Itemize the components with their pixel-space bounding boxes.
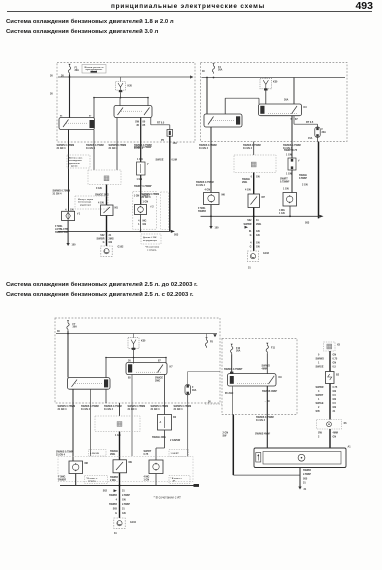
svg-text:SW/RT: SW/RT (142, 195, 150, 198)
svg-text:GN: GN (333, 398, 337, 401)
relay K1 (dashed box with coil) (116, 82, 126, 93)
wire K2 pin87 down to connector box (93, 130, 95, 171)
exit label wire 6 (174, 405, 192, 411)
bus 30 (supply rail) (56, 333, 217, 335)
wire node row (106, 357, 166, 359)
svg-text:31: 31 (303, 482, 306, 485)
fan motor M5 (298, 454, 305, 461)
wire ML2 to ground point (thick) (119, 473, 121, 518)
wire F9h down (187, 395, 189, 403)
svg-text:85 2GN: 85 2GN (225, 392, 234, 395)
fuse holder F9h (pill) (185, 385, 190, 395)
right leg to fan unit (329, 429, 331, 448)
svg-text:S05: S05 (303, 478, 308, 481)
svg-text:G102: G102 (118, 246, 125, 249)
connector X2 (dashed box with plug) (88, 170, 121, 185)
svg-text:Мотор + серия: Мотор + серия (78, 199, 94, 201)
wire branch horizontal (294, 123, 318, 125)
wire R1 to motor M3 (291, 170, 293, 193)
svg-text:G104: G104 (130, 521, 137, 524)
svg-text:SW/GE: SW/GE (316, 366, 324, 369)
pin terminal blob left (230, 372, 233, 374)
ground connector (dashed) (317, 420, 342, 430)
svg-text:1: 1 (318, 362, 320, 365)
svg-text:Вентил. сист.: Вентил. сист. (69, 158, 83, 160)
ground bus 31 (60, 485, 197, 487)
svg-text:M8: M8 (85, 462, 89, 465)
svg-text:K30: K30 (141, 340, 146, 343)
svg-text:SW/BR: SW/BR (198, 210, 206, 213)
wire to relay K3 contact (147, 98, 149, 106)
svg-text:SW/WS 4MM²: SW/WS 4MM² (262, 389, 277, 393)
fuse F8 (205, 337, 207, 347)
wire K8 pin85 down (left leg) (232, 386, 234, 415)
exit label wire 3 (104, 405, 122, 411)
svg-text:30A: 30A (218, 69, 223, 72)
control valve V1 (326, 372, 335, 384)
svg-text:2MG: 2MG (242, 181, 247, 184)
svg-text:SW/BR: SW/BR (244, 223, 252, 226)
exit label wire K5-87 (283, 144, 301, 150)
header rule (7, 11, 372, 13)
relay K2 (fan relay) (59, 118, 95, 130)
exit label wire 5 (151, 405, 169, 411)
left leg (thick) down (232, 415, 234, 476)
junction C1 wire x bus (210, 215, 212, 217)
wire K3 contact to sensor connector (thick) (140, 118, 142, 163)
svg-text:0.75MM²: 0.75MM² (280, 180, 290, 184)
svg-text:2 GN: 2 GN (302, 184, 308, 187)
dashed label box 2 (169, 450, 189, 457)
svg-text:4 GN SW: 4 GN SW (90, 452, 99, 455)
ground bus wire 31 (58, 230, 170, 232)
jog line (156, 447, 165, 449)
svg-text:30A: 30A (73, 326, 78, 329)
sensor enclosure (dashed) (133, 192, 157, 230)
wire CL1 to ground bus (75, 474, 77, 486)
svg-text:радиатора: радиатора (80, 204, 92, 206)
wire coil to relay K5 (265, 91, 267, 105)
fan unit inner frame (263, 452, 341, 465)
svg-text:предохран.: предохран. (86, 69, 104, 71)
svg-text:31: 31 (122, 508, 125, 511)
svg-text:← 30: ← 30 (205, 401, 211, 404)
labels above C1 (196, 181, 214, 187)
ground terminal 100 (209, 226, 212, 229)
svg-text:GN: GN (143, 223, 147, 226)
svg-text:2MG: 2MG (110, 453, 115, 456)
svg-text:F8: F8 (210, 341, 213, 344)
svg-text:1: 1 (318, 398, 320, 401)
svg-text:RT 0.5: RT 0.5 (157, 122, 165, 125)
svg-text:4MM²: 4MM² (262, 367, 268, 371)
wire X4 to motor ML2 (thick) (119, 432, 121, 460)
valve Y1 (diamond symbol in box) (62, 211, 75, 220)
connector X2 pins (104, 176, 109, 181)
svg-text:GN: GN (333, 362, 337, 365)
svg-text:RT 0.5: RT 0.5 (306, 121, 314, 124)
svg-text:31: 31 (122, 490, 125, 493)
valve C1 (circle with arrows) (204, 193, 220, 205)
svg-text:1 GN: 1 GN (286, 154, 292, 157)
svg-text:30A: 30A (75, 69, 80, 72)
svg-text:0.75: 0.75 (333, 386, 338, 389)
bus end blob (194, 484, 200, 487)
fuse-relay box (dashed enclosure) (55, 318, 220, 403)
junction right end node row (165, 357, 167, 359)
wire Y1 to ground (67, 221, 69, 244)
svg-text:30A: 30A (284, 99, 289, 102)
svg-text:0: 0 (318, 354, 320, 357)
connector X3 (dashed box) (234, 155, 276, 173)
labels above CL1 (56, 451, 74, 457)
connector X4 (dashed box) (95, 416, 140, 432)
wire K3 right contact down (150, 118, 152, 125)
svg-text:кондиц.: кондиц. (88, 481, 96, 483)
wire jog down (187, 372, 189, 385)
wire node to relay K6 (105, 358, 107, 378)
svg-text:SW/BR: SW/BR (109, 494, 117, 497)
svg-text:31: 31 (333, 410, 336, 413)
svg-text:4MM: 4MM (333, 432, 338, 435)
svg-text:0.5: 0.5 (333, 366, 337, 369)
resistor R1 (inline connector) (288, 158, 296, 170)
wire to relay K3 coil (119, 98, 121, 106)
right control leg (thick) segment 1 (329, 351, 331, 372)
svg-text:0.5MM²: 0.5MM² (299, 176, 307, 180)
svg-text:B2: B2 (336, 374, 340, 377)
svg-text:t°2: t°2 (151, 206, 155, 209)
svg-text:SW/BR: SW/BR (109, 503, 117, 506)
wire bus to F8 (206, 334, 208, 339)
fuse F1 (68, 64, 70, 74)
svg-text:GN: GN (70, 208, 74, 211)
junction A (120, 97, 122, 99)
wire K6-87 down to connector X4 (119, 403, 121, 416)
svg-text:K7: K7 (170, 366, 174, 369)
page number 493 (355, 0, 373, 12)
wire node row (horizontal) (94, 97, 148, 99)
svg-text:GN: GN (333, 390, 337, 393)
relay K6 (fan relay) (68, 378, 111, 390)
svg-text:M9: M9 (129, 461, 133, 464)
note box below ML3 (169, 476, 190, 484)
wire F11 to relay K8 (266, 353, 268, 373)
svg-text:(реле): (реле) (71, 166, 78, 168)
svg-text:100: 100 (72, 244, 77, 247)
svg-text:30A: 30A (192, 389, 197, 392)
svg-text:GN: GN (256, 242, 260, 245)
relay K8 (fan relay) (228, 374, 277, 386)
svg-text:GN: GN (122, 512, 126, 515)
wire node to relay K7 contact (165, 358, 167, 364)
svg-text:S03: S03 (174, 234, 179, 237)
splice S03 end arrow (319, 215, 323, 218)
bus 30 (supply rail) (58, 76, 190, 78)
svg-text:t°1: t°1 (77, 213, 81, 216)
junction at F4 (213, 77, 215, 79)
svg-text:4: 4 (65, 208, 67, 211)
svg-text:S05: S05 (316, 410, 321, 413)
feed arrow at bus end (213, 334, 216, 337)
svg-text:30: 30 (128, 360, 131, 363)
svg-text:X6: X6 (344, 422, 348, 425)
svg-text:4 GN: 4 GN (98, 202, 104, 205)
valve CL1 (circle with arrows) (69, 461, 83, 474)
sensor feed connector (dashed, top right) (324, 342, 336, 351)
svg-text:G: G (250, 234, 252, 237)
wire node to relay K5 pin (258, 98, 260, 104)
exit label pin87 wire (256, 416, 274, 422)
motor ML3 box (149, 460, 163, 474)
svg-text:1 GN: 1 GN (137, 178, 143, 181)
svg-text:S02: S02 (247, 219, 252, 222)
svg-text:G: G (103, 241, 105, 244)
arrow junction below bus (245, 226, 249, 229)
svg-text:F11: F11 (271, 347, 276, 350)
svg-text:1 GN: 1 GN (144, 479, 150, 482)
svg-text:31: 31 (256, 219, 259, 222)
svg-text:S03: S03 (305, 222, 310, 225)
relay K6a coil (dashed box) (128, 338, 139, 350)
svg-text:2MG: 2MG (256, 223, 261, 226)
fuse-relay box (dashed enclosure) (201, 63, 348, 142)
bus right end arrow (190, 75, 194, 78)
wire K6-87 out (105, 389, 107, 403)
svg-text:GN: GN (333, 406, 337, 409)
svg-text:GN: GN (256, 176, 260, 179)
motor M3 box (283, 193, 297, 207)
junction ML2 wire x bus (119, 485, 121, 487)
svg-text:0.75: 0.75 (333, 358, 338, 361)
svg-text:SW/RT 0.75MM²: SW/RT 0.75MM² (134, 184, 152, 188)
svg-text:K3: K3 (304, 106, 308, 109)
wire node row (225, 97, 259, 99)
wire K7 to resistor R2 (164, 375, 166, 415)
svg-text:15A: 15A (173, 142, 178, 145)
dashed label box 1 (89, 450, 107, 457)
svg-text:SW/WS 4MM²: SW/WS 4MM² (255, 432, 270, 436)
svg-text:2.5MM²: 2.5MM² (303, 472, 311, 476)
svg-text:A1: A1 (348, 446, 352, 449)
svg-text:GN: GN (256, 246, 260, 249)
exit label wire 2 (81, 405, 99, 411)
ground terminal 31 (298, 487, 301, 490)
svg-text:t°: t° (147, 163, 149, 166)
junction feed wire x ground bus (end arrow) (171, 230, 175, 233)
exit label wire K4-87 (243, 144, 261, 150)
junction M2 wire x bus (253, 215, 255, 217)
svg-text:1 GN RT: 1 GN RT (171, 453, 180, 455)
svg-text:2: 2 (318, 406, 320, 409)
motor ML2 switch box (113, 460, 127, 473)
note box below CL1 (85, 476, 108, 484)
svg-text:4 GN: 4 GN (205, 189, 211, 192)
wire node to relay K4 (224, 98, 226, 114)
svg-text:1 GN: 1 GN (137, 158, 143, 161)
fuse-relay box (dashed enclosure) (222, 339, 297, 415)
wire F7 to relay K6 pin30 (67, 331, 69, 378)
label left of Y1 (53, 190, 71, 196)
svg-text:30: 30 (202, 70, 205, 73)
wire F6 into holder (317, 124, 319, 127)
page header title (0, 3, 376, 10)
svg-text:SW/BR: SW/BR (303, 469, 311, 472)
svg-text:85: 85 (143, 124, 146, 127)
svg-text:SW/GE: SW/GE (316, 402, 324, 405)
svg-text:2MG: 2MG (155, 380, 160, 383)
wire bus to relay K4 pin30 (206, 78, 208, 115)
wire jog to motor ML3 (155, 448, 157, 460)
wire R2 to jog (164, 430, 166, 448)
svg-text:R2: R2 (173, 416, 177, 419)
svg-text:30: 30 (57, 330, 60, 333)
wire K8 pin87 to fan unit (266, 386, 268, 448)
svg-text:M7: M7 (262, 196, 266, 199)
junction M3 wire x bus (289, 215, 291, 217)
svg-text:SW: SW (223, 435, 228, 438)
svg-text:* В сочет. с: * В сочет. с (86, 478, 98, 480)
label box: fan control note (67, 155, 90, 168)
svg-text:SW: SW (318, 432, 323, 435)
svg-text:1: 1 (138, 223, 140, 226)
connector X3 pin (251, 162, 256, 167)
junction M1 wire x ground bus (106, 230, 108, 232)
jog from box edge to fuse holder F9h (188, 371, 220, 373)
wire K4 pin87 down to connector X3 (253, 142, 255, 156)
wire K5 to resistor R1 (291, 116, 293, 158)
svg-text:t°: t° (298, 160, 300, 163)
svg-text:4: 4 (318, 390, 320, 393)
section title 2 (6, 29, 158, 35)
svg-text:SW/BR: SW/BR (316, 386, 324, 389)
svg-text:85: 85 (128, 377, 131, 380)
svg-text:X5: X5 (337, 344, 341, 347)
section title 1 (6, 19, 174, 25)
svg-text:GN: GN (333, 436, 337, 439)
wire C1 below (210, 205, 212, 227)
svg-text:SW/BR: SW/BR (58, 479, 66, 482)
ground terminal 100 (66, 243, 69, 246)
svg-text:1 GN: 1 GN (143, 201, 149, 204)
wire K4 pin86 down to valve C1 (210, 127, 212, 193)
exit label wire K2-86 (57, 144, 75, 150)
fuse F10 (231, 344, 233, 354)
label box: motor note (75, 196, 108, 209)
svg-text:двигателя: двигателя (69, 163, 80, 165)
svg-text:GN: GN (333, 354, 337, 357)
exit label wire K2-87 (86, 144, 104, 150)
arrow junction below bus (114, 489, 118, 492)
wire B3 down to bus (140, 215, 142, 232)
feed wire enclosure (dashed) (161, 192, 169, 230)
wire F6 to box edge (317, 137, 319, 141)
svg-text:M6: M6 (222, 194, 226, 197)
wire K2 pin86 down to valve (68, 130, 70, 212)
svg-text:P5: P5 (161, 139, 165, 142)
wire connector to sensor B3 (140, 175, 142, 205)
svg-text:30: 30 (50, 93, 53, 96)
svg-text:A: A (160, 421, 162, 424)
right control leg segment 2 (329, 384, 331, 420)
wire ML3 to ground bus (155, 474, 157, 486)
svg-text:4: 4 (116, 499, 118, 502)
svg-text:вентилятора: вентилятора (78, 202, 92, 204)
wire into fuse P5 (169, 125, 171, 130)
section title 4 (6, 292, 194, 298)
svg-text:* В сочет. с: * В сочет. с (171, 478, 183, 480)
svg-text:SW/GE 2MG: SW/GE 2MG (95, 194, 109, 197)
ground point G103 (247, 251, 258, 261)
wire bus to relay K1 coil (120, 77, 122, 82)
svg-text:GN: GN (122, 499, 126, 502)
svg-text:S05: S05 (113, 508, 118, 511)
svg-text:Датчик t° ОЖ: Датчик t° ОЖ (143, 236, 156, 239)
wire to relay K2 contact (93, 98, 95, 118)
connector X4 pin (117, 422, 122, 427)
junction at h-line right end (147, 97, 149, 99)
pass-through fuse P5 on main feed (167, 130, 173, 137)
svg-text:31: 31 (114, 532, 117, 535)
exit label wire K3-85 (109, 144, 127, 150)
svg-text:100: 100 (215, 227, 220, 230)
fuse F4 (212, 63, 214, 73)
svg-text:15A: 15A (308, 137, 313, 140)
svg-text:G: G (115, 512, 117, 515)
svg-text:30A: 30A (322, 131, 327, 134)
motor M1 switch box (101, 205, 114, 216)
relay K5 (fan relay 2) (259, 104, 302, 116)
exit label wire 4 (128, 405, 146, 411)
inline sensor connector B (137, 162, 149, 175)
relay K3 (high speed relay) (114, 106, 152, 118)
branch to fuse holder (293, 116, 295, 125)
svg-text:SW/GE 2MG: SW/GE 2MG (152, 436, 166, 439)
junction at h-line left end (93, 97, 95, 99)
svg-text:G103: G103 (263, 252, 270, 255)
svg-text:0: 0 (251, 176, 253, 179)
wire F9h leg down (187, 403, 189, 456)
wire bus to relay K5 pin30 (293, 78, 295, 105)
junction at bus (206, 77, 208, 79)
fuse holder F6 (pill) (315, 127, 320, 137)
svg-text:K9: K9 (279, 376, 283, 379)
svg-text:87: 87 (158, 360, 161, 363)
wire K3 pin87 down to connector box (116, 118, 118, 171)
ground point G102 (101, 246, 112, 256)
main right feed (thick) to splice (318, 142, 320, 219)
junction at F7 (67, 333, 69, 335)
wire fan to ground (299, 468, 301, 487)
svg-text:4: 4 (250, 242, 252, 245)
ground point G104 (114, 518, 125, 528)
fan connector pins inside (256, 453, 261, 463)
wire bus to coil (265, 77, 267, 80)
wire M1 to ground point (106, 216, 108, 247)
svg-text:M1: M1 (115, 207, 119, 210)
wire bus to coil (133, 334, 135, 338)
svg-text:1 GN: 1 GN (134, 195, 140, 198)
svg-text:* В сочетании с АТ: * В сочетании с АТ (154, 496, 182, 500)
svg-text:K20: K20 (128, 85, 133, 88)
terminal 30 stub (dashed) (205, 403, 222, 405)
branch line to fuse P5 (151, 124, 170, 126)
fuse F11 (266, 343, 268, 353)
svg-text:SW/GE: SW/GE (156, 159, 164, 162)
relay K7 (high speed relay) (126, 363, 167, 375)
exit label wire K4-86 (199, 144, 217, 150)
svg-text:SW/RT 0.75: SW/RT 0.75 (284, 149, 298, 152)
